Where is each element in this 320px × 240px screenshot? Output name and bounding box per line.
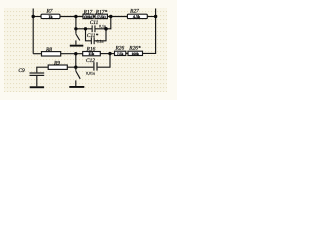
- svg-text:R9: R9: [53, 60, 60, 66]
- resistor R7: [41, 9, 60, 19]
- svg-text:R26: R26: [114, 45, 124, 51]
- wire R17 to R17*: [93, 16, 95, 18]
- svg-text:160k: 160k: [132, 52, 139, 56]
- svg-text:R17*: R17*: [95, 9, 108, 15]
- svg-text:C9: C9: [18, 68, 25, 74]
- svg-text:(30k): (30k): [84, 15, 93, 19]
- wire R17* to top-right junction: [107, 16, 127, 18]
- svg-text:C12: C12: [86, 58, 95, 64]
- wire R27 to right rail: [147, 16, 155, 18]
- junction dot C11 branch right: [104, 27, 108, 31]
- svg-text:7,5k: 7,5k: [117, 52, 124, 56]
- ground bar under C9: [30, 86, 44, 88]
- ground bar under S1: [70, 45, 84, 47]
- svg-text:R8: R8: [45, 47, 52, 53]
- wire C12 to mid-right junction: [98, 54, 110, 68]
- svg-text:R16: R16: [86, 47, 96, 53]
- wire R7 to node A: [60, 16, 83, 18]
- resistor R17: [83, 9, 94, 19]
- wire middle row: rail corner to R8: [33, 53, 41, 55]
- wire C9 bottom stub to ground: [36, 76, 38, 86]
- junction dot C11 branch left: [74, 27, 77, 30]
- switch S1 (node A to ground): [76, 29, 80, 45]
- resistor R16: [83, 47, 101, 56]
- svg-text:R17: R17: [83, 9, 93, 15]
- junction dot top right: [109, 15, 112, 18]
- ground bar under S2: [69, 86, 84, 88]
- resistor R26: [114, 45, 125, 55]
- wire C11* left stub: [86, 29, 92, 41]
- svg-text:4,3k: 4,3k: [133, 14, 141, 19]
- wire node B down to row3: [75, 54, 77, 67]
- capacitor C11: [90, 20, 106, 32]
- wire right vertical rail: [143, 9, 156, 54]
- resistor R9: [48, 60, 67, 69]
- svg-text:C11: C11: [90, 20, 99, 26]
- capacitor C11*: [87, 33, 104, 44]
- resistor R26*: [128, 45, 143, 55]
- wire R16 to mid-right junction: [100, 53, 114, 55]
- junction node A dot: [74, 15, 77, 18]
- junction dot mid right: [108, 52, 111, 55]
- wire C11* right stub: [94, 29, 106, 41]
- svg-text:0,01u: 0,01u: [86, 71, 95, 76]
- wire node A rail down to C11 branch: [75, 17, 77, 29]
- resistor R17*: [95, 9, 108, 19]
- svg-text:0,1n: 0,1n: [99, 24, 106, 29]
- svg-text:R27: R27: [129, 9, 139, 15]
- wire top row from rail to R7: [33, 16, 41, 18]
- wire R9 to node C: [67, 66, 93, 68]
- junction dot row3 node C: [74, 66, 77, 69]
- wire R26 to R26*: [126, 52, 128, 54]
- wire R8 to node B: [61, 53, 83, 55]
- junction dot right rail / R27: [154, 15, 157, 18]
- svg-text:R26*: R26*: [128, 45, 141, 51]
- switch S2 (node C to ground): [76, 67, 80, 86]
- junction dot left rail top row: [32, 15, 35, 18]
- svg-text:0,1n: 0,1n: [97, 39, 104, 44]
- junction dot node B: [74, 52, 77, 55]
- svg-text:(7,5k): (7,5k): [97, 15, 107, 19]
- wire C11 branch horizontal: [76, 28, 106, 30]
- svg-text:R7: R7: [46, 9, 53, 15]
- wire left vertical rail: [32, 9, 34, 54]
- capacitor C9: [18, 68, 44, 76]
- wire right side down-jog to C11 branch: [106, 17, 111, 29]
- wire C9 corner to R9: [37, 67, 48, 72]
- background paper: [0, 0, 177, 100]
- junction dot C11 branch / C11* tap: [84, 27, 87, 30]
- resistor R8: [42, 47, 61, 56]
- capacitor C12: [86, 58, 98, 75]
- resistor R27: [127, 9, 147, 19]
